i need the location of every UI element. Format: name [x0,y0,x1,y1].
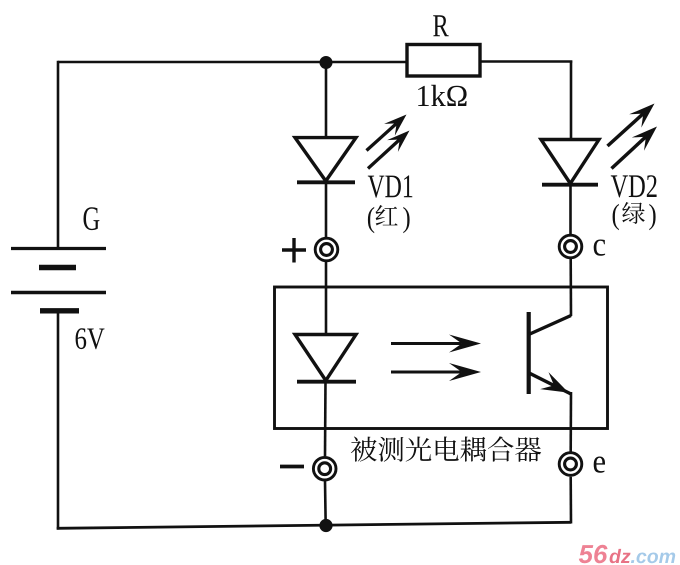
label VD2 [611,175,657,197]
label 6V [76,328,105,349]
photodiode cathode bar [297,380,356,384]
coupling arrow 2 [391,363,481,381]
optocoupler box outline [275,287,608,429]
wire right vertical branch [569,61,572,524]
label + [282,238,306,263]
phototransistor base bar [527,312,531,394]
terminal c (collector) [559,235,582,258]
LED VD2 emission arrow 1 [608,104,655,147]
LED VD1 cathode bar [297,180,355,184]
label - (minus) [280,465,304,469]
label (绿) [613,202,656,230]
wire top-right horizontal [480,60,572,63]
label G [84,207,100,230]
coupling arrow 1 [391,335,481,353]
LED VD2 emission arrow 2 [612,127,658,169]
label VD1 [368,175,413,197]
terminal + (anode) [315,238,338,261]
terminal e (emitter) [559,453,582,476]
wire left vertical (battery branch) [57,61,60,530]
value 1kΩ [418,85,466,106]
wire middle vertical branch [325,62,326,526]
junction node bottom (dot) [319,519,332,532]
label e [594,457,605,473]
LED VD2 triangle [541,140,599,184]
battery G plate short lower [40,308,79,313]
label c [594,240,605,256]
photodiode triangle (inside optocoupler) [295,335,356,381]
resistor R body [407,45,480,77]
wire top-left horizontal [58,61,406,64]
battery G plate long top [11,247,106,250]
LED VD1 emission arrow 2 [368,131,410,169]
LED VD1 emission arrow 1 [367,115,407,151]
wire bottom horizontal [57,522,571,528]
phototransistor collector lead [529,316,571,335]
terminal - (cathode) [313,457,336,480]
junction node top (dot) [320,56,333,69]
label R [433,15,449,36]
battery G plate long bottom [11,291,106,294]
LED VD1 triangle [295,138,356,181]
LED VD2 cathode bar [542,183,598,187]
label 被测光电耦合器 [351,436,541,461]
phototransistor emitter lead with arrow [529,372,571,394]
battery G plate short upper [39,265,76,270]
label (红) [368,205,410,233]
watermark 56dz.com [579,545,675,564]
